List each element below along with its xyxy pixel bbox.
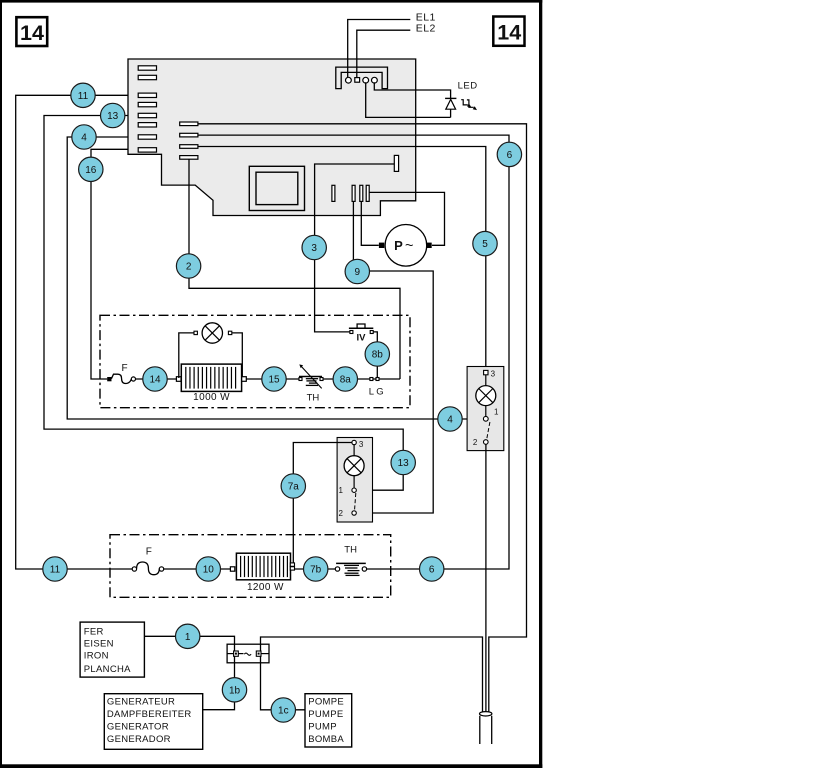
wire F1 to heater R1 xyxy=(136,378,177,380)
svg-text:~: ~ xyxy=(405,238,413,254)
svg-text:2: 2 xyxy=(473,438,478,447)
node 1c xyxy=(271,698,295,722)
node 1 xyxy=(176,624,200,648)
svg-text:EL2: EL2 xyxy=(416,23,436,35)
svg-text:9: 9 xyxy=(355,267,361,278)
EL connector pin c xyxy=(363,77,369,83)
EL connector housing on PCB top xyxy=(336,67,388,89)
svg-text:PUMPE: PUMPE xyxy=(308,709,343,720)
wire node 1 : iron box to connector xyxy=(145,636,235,651)
svg-text:1: 1 xyxy=(185,632,191,643)
wire net B (node 6) : J2 pin2 to TH2 xyxy=(198,135,509,569)
frame right bar xyxy=(539,0,542,768)
svg-text:2: 2 xyxy=(339,509,344,518)
heater R1 1000W xyxy=(176,364,246,403)
svg-text:PUMP: PUMP xyxy=(308,722,337,733)
svg-text:8a: 8a xyxy=(340,375,352,386)
pump motor M1 P~ xyxy=(379,225,432,267)
svg-text:3: 3 xyxy=(311,243,317,254)
wire pump right terminal to J5 pin3 xyxy=(369,192,444,245)
svg-text:LG: LG xyxy=(369,387,386,398)
svg-text:3: 3 xyxy=(359,440,364,449)
svg-text:16: 16 xyxy=(85,165,97,176)
wire EL2 xyxy=(357,30,411,77)
svg-text:TH: TH xyxy=(307,392,320,403)
node 7b xyxy=(304,557,328,581)
wire net A : J2 pin1 to probe xyxy=(198,124,527,712)
node 16 xyxy=(79,157,103,181)
wire IV to 8b to LG xyxy=(373,332,377,377)
svg-text:TH: TH xyxy=(344,545,357,556)
svg-text:13: 13 xyxy=(398,458,410,469)
svg-text:4: 4 xyxy=(447,415,453,426)
wire node 16 : pin8 to fuse F1 xyxy=(91,149,128,379)
svg-text:F: F xyxy=(122,363,128,374)
svg-text:8b: 8b xyxy=(372,350,384,361)
svg-text:1: 1 xyxy=(339,486,344,495)
svg-text:BOMBA: BOMBA xyxy=(308,734,344,745)
svg-text:GENERATEUR: GENERATEUR xyxy=(107,697,175,708)
node 13 top xyxy=(101,103,125,127)
svg-text:4: 4 xyxy=(81,133,87,144)
svg-text:15: 15 xyxy=(268,375,280,386)
wire EL1 xyxy=(348,20,411,79)
node 3 xyxy=(302,235,326,259)
wire node 3 : J3 pin to IV switch xyxy=(315,164,395,332)
node 11 top xyxy=(71,83,95,107)
wire selector terminal 2 down to probe xyxy=(485,444,487,711)
wire heater R2 to 7b to TH2 xyxy=(295,568,336,570)
svg-text:GENERATOR: GENERATOR xyxy=(107,722,169,733)
wire TH1 to LG junction xyxy=(323,378,400,380)
connector J4 lone vertical pin xyxy=(332,185,335,201)
svg-text:14: 14 xyxy=(497,21,521,45)
svg-text:11: 11 xyxy=(50,565,61,576)
wire node 1c : connector to pump box xyxy=(261,657,306,710)
wire node 4 : pin7 to selector terminal 1 xyxy=(67,137,484,419)
node 11 bottom xyxy=(43,557,67,581)
frame bottom bar xyxy=(0,764,542,768)
svg-text:11: 11 xyxy=(78,91,89,102)
svg-text:P: P xyxy=(394,238,403,253)
svg-text:EL1: EL1 xyxy=(416,11,436,23)
thermal fuse F2 xyxy=(132,546,164,574)
node 15 xyxy=(262,367,286,391)
wire heater R1 to TH1 xyxy=(246,378,299,380)
svg-text:IRON: IRON xyxy=(84,651,109,662)
iron connector X1 xyxy=(227,644,269,663)
node 8b xyxy=(365,342,389,366)
wire node 1b : connector to generator box xyxy=(203,657,235,710)
node 10 xyxy=(196,557,220,581)
svg-text:DAMPFBEREITER: DAMPFBEREITER xyxy=(107,709,192,720)
node 4 right xyxy=(438,407,462,431)
selector switch S2 (right, with lamp) xyxy=(467,367,504,451)
node 14 xyxy=(143,367,167,391)
LG junction terminals xyxy=(370,378,373,381)
svg-text:14: 14 xyxy=(20,21,44,45)
PCB module U1 body xyxy=(128,59,416,216)
wire connector right terminal up and to probe xyxy=(261,637,483,712)
node 6 bottom xyxy=(420,557,444,581)
frame left bar xyxy=(0,0,2,768)
svg-text:2: 2 xyxy=(186,262,192,273)
LED light arrows xyxy=(461,100,473,108)
svg-text:IV: IV xyxy=(357,333,367,344)
svg-text:EISEN: EISEN xyxy=(84,638,114,649)
thermal fuse F1 xyxy=(107,363,135,384)
wire pin d to LED anode xyxy=(374,82,450,98)
LED D1 xyxy=(445,98,456,117)
connector J1 left column pins 1-8 xyxy=(138,66,156,152)
pump text box xyxy=(305,694,352,747)
svg-text:1c: 1c xyxy=(278,706,289,717)
node circles xyxy=(43,83,522,722)
node 9 xyxy=(345,259,369,283)
wire pump left terminal to J5 pin2 xyxy=(361,202,379,246)
lamp switch box S1 (left) xyxy=(337,438,372,523)
thermostat TH1 xyxy=(299,364,323,403)
node 2 xyxy=(176,254,200,278)
svg-text:1000 W: 1000 W xyxy=(193,392,230,403)
sheet number box right "14" xyxy=(493,17,524,46)
dash-dot box 1200W circuit xyxy=(110,535,391,598)
svg-text:6: 6 xyxy=(429,565,435,576)
transformer T1 (double square) xyxy=(249,166,304,210)
wire F2 to circle 10 to heater R2 xyxy=(164,568,231,570)
node 1b xyxy=(222,678,246,702)
thermostat TH2 xyxy=(335,545,366,576)
node 7a xyxy=(281,474,305,498)
node 4 top xyxy=(72,125,96,149)
wire node 11 : pin3 to circle 11 to bottom row xyxy=(16,95,133,569)
generator text box xyxy=(104,694,202,750)
svg-text:FER: FER xyxy=(84,626,104,637)
wire node 13 : pin5 to lamp box terminal 1 xyxy=(44,116,403,491)
node 13 mid xyxy=(391,450,415,474)
node 5 xyxy=(473,231,497,255)
svg-text:14: 14 xyxy=(149,375,161,386)
push switch IV xyxy=(349,324,373,344)
EL connector pin b (square) xyxy=(355,78,360,83)
svg-text:1b: 1b xyxy=(229,685,241,696)
iron text box xyxy=(80,622,144,677)
node 8a xyxy=(333,367,357,391)
svg-text:PLANCHA: PLANCHA xyxy=(84,664,131,675)
svg-text:7b: 7b xyxy=(310,565,322,576)
svg-text:10: 10 xyxy=(203,565,215,576)
svg-text:13: 13 xyxy=(107,111,119,122)
sheet number box left "14" xyxy=(16,17,47,46)
wire node 2 : J2 pin4 down to LG junction xyxy=(189,159,400,379)
svg-text:7a: 7a xyxy=(288,482,300,493)
svg-text:LED: LED xyxy=(458,81,478,92)
svg-text:F: F xyxy=(146,546,152,557)
connector J3 vertical pin (pump feed) xyxy=(394,155,398,171)
svg-text:GENERADOR: GENERADOR xyxy=(107,734,171,745)
svg-text:5: 5 xyxy=(482,239,488,250)
heater R2 1200W xyxy=(230,553,294,593)
wire node 9 : pump pin via circle 9 to lamp box terminal 2 xyxy=(353,202,433,514)
connector J2 second column pins 1-4 xyxy=(180,122,198,159)
svg-text:1: 1 xyxy=(494,408,499,417)
wire pin c to LED cathode xyxy=(366,82,451,117)
EL connector pin a xyxy=(346,77,352,83)
frame top bar xyxy=(0,0,542,3)
svg-text:1200 W: 1200 W xyxy=(247,582,284,593)
wire node 7 : box terminal 3 to heater R2 right terminal xyxy=(293,443,352,567)
svg-text:6: 6 xyxy=(507,150,513,161)
dash-dot box 1000W circuit xyxy=(100,315,410,407)
wire net C (node 5) : J2 pin3 to selector terminal 3 xyxy=(198,147,486,371)
node 6 top xyxy=(497,142,521,166)
svg-text:POMPE: POMPE xyxy=(308,697,344,708)
connector J5 triple vertical pins xyxy=(352,185,369,201)
svg-text:3: 3 xyxy=(491,370,496,379)
water level probe xyxy=(480,712,492,744)
EL connector pin d xyxy=(372,77,378,83)
pilot lamp over R1 xyxy=(179,323,243,378)
